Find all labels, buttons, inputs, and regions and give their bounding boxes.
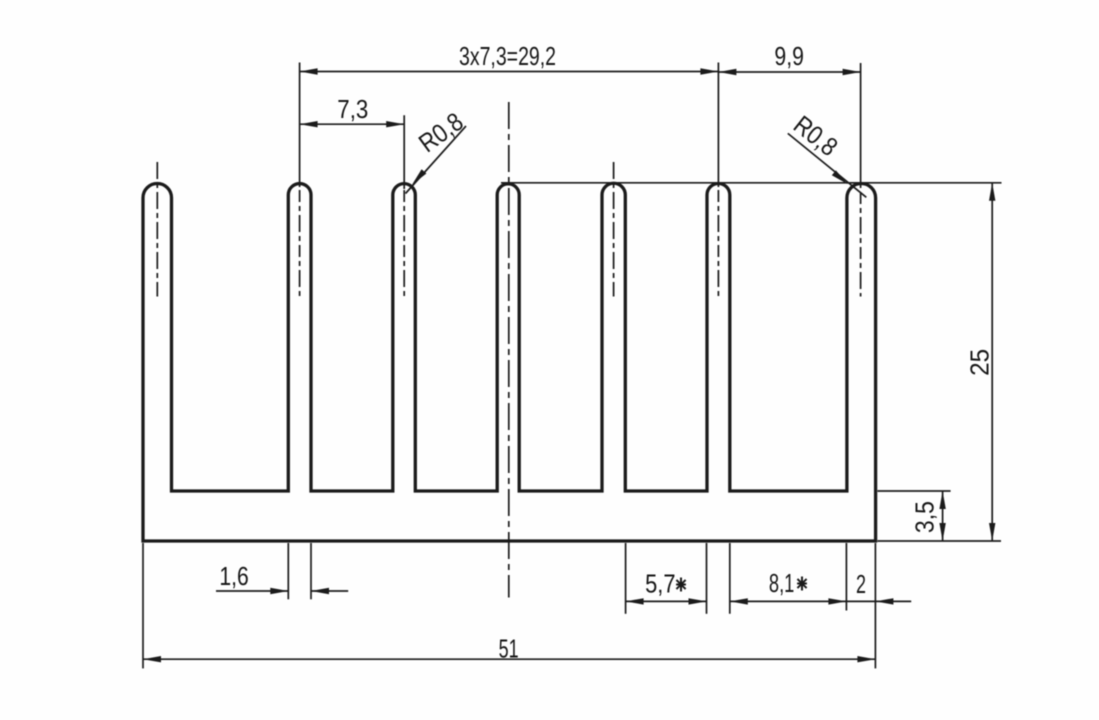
arrow right 5,7 [689, 598, 707, 604]
svg-text:9,9: 9,9 [774, 41, 804, 71]
svg-text:8,1: 8,1 [769, 568, 795, 598]
arrow left 5,7 [626, 598, 644, 604]
arrow right 9,9 [843, 69, 861, 75]
arrow up 25 [989, 183, 995, 201]
centerline fin7 lower [860, 192, 862, 297]
dimension line 3x7,3=29,2 [300, 71, 719, 73]
arrow right 8,1 [828, 598, 846, 604]
dimension line 1,6 left segment [216, 590, 288, 592]
extension line slot floor right (3,5) [878, 490, 951, 492]
arrow down 3,5 [939, 523, 945, 541]
dimension line 9,9 [718, 71, 860, 73]
extension line 1,6 right [310, 543, 312, 599]
extension line base bottom right [878, 540, 1002, 542]
extension line fin3 top [403, 115, 405, 189]
leader arrow R0,8 fin3 [412, 169, 426, 185]
extension line 51 left [142, 543, 144, 668]
dimension line 8,1 and 2 [730, 600, 911, 602]
extension line 5,7 left [625, 543, 627, 614]
arrow 2 pointing left outside [875, 598, 893, 604]
centerline fin5 [613, 162, 615, 297]
asterisk 8,1 [797, 577, 807, 591]
arrow right 51 [857, 656, 875, 662]
svg-text:25: 25 [965, 349, 995, 376]
svg-text:3x7,3=29,2: 3x7,3=29,2 [459, 41, 556, 71]
dimension line 25 [991, 183, 993, 541]
dimension line 7,3 [300, 123, 405, 125]
centerline fin3 lower [403, 190, 405, 297]
heatsink profile outline [143, 183, 876, 541]
svg-text:5,7: 5,7 [645, 569, 675, 599]
extension line fin7 top [860, 63, 862, 188]
extension line fin2 top [299, 63, 301, 188]
svg-text:3,5: 3,5 [910, 501, 940, 533]
arrow left 3x7,3 [300, 68, 318, 74]
dimension line 3,5 [942, 491, 944, 541]
arrow left 51 [143, 656, 161, 662]
arrow up 3,5 [939, 491, 945, 509]
dimension line 1,6 right segment [311, 590, 348, 592]
arrow right 3x7,3 [700, 68, 718, 74]
arrow 1,6 pointing right [270, 588, 288, 594]
extension line fin6 top [717, 63, 719, 188]
arrow 1,6 pointing left [311, 588, 329, 594]
extension line 5,7 right [706, 543, 708, 614]
leader R0,8 fin3 [406, 126, 467, 194]
arrow left 8,1 [730, 598, 748, 604]
svg-text:7,3: 7,3 [337, 94, 368, 124]
leader R0,8 fin7 [788, 133, 867, 197]
dimension line 51 [143, 658, 875, 660]
svg-text:51: 51 [499, 634, 519, 664]
extension line 8,1 left [729, 543, 731, 614]
centerline fin6 lower [717, 190, 719, 297]
leader arrow R0,8 fin7 [832, 170, 848, 184]
extension line 51 right / 2 right [874, 543, 876, 668]
arrow right 7,3 [386, 121, 404, 127]
svg-text:R0,8: R0,8 [413, 106, 469, 158]
extension line top (25) [501, 182, 1002, 184]
svg-text:1,6: 1,6 [219, 561, 248, 591]
arrow left 7,3 [300, 121, 318, 127]
svg-text:2: 2 [856, 569, 866, 599]
extension line 8,1 right / 2 left [845, 543, 847, 611]
asterisk 5,7 [676, 578, 686, 592]
extension line 1,6 left [287, 543, 289, 599]
dimension line 5,7 [626, 600, 707, 602]
centerline fin2 lower [299, 190, 301, 297]
centerline fin1 [156, 162, 158, 297]
long center line [508, 102, 510, 598]
arrow left 9,9 [718, 69, 736, 75]
svg-text:R0,8: R0,8 [788, 109, 843, 162]
arrow down 25 [989, 523, 995, 541]
